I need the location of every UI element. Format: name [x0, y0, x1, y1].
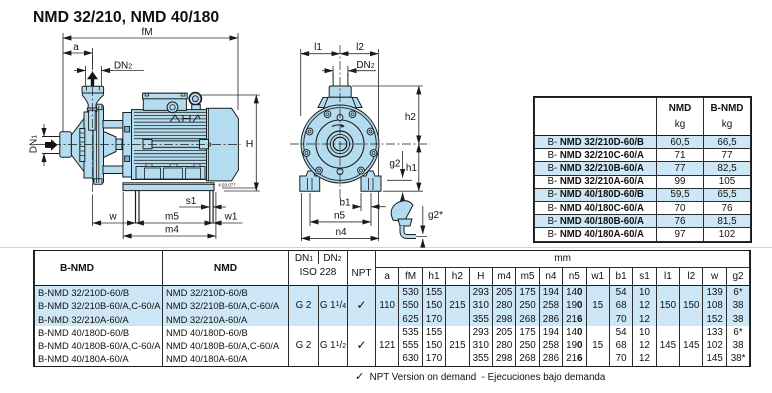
svg-text:DN2: DN2 [114, 61, 132, 72]
svg-text:n5: n5 [334, 211, 346, 222]
svg-text:g2*: g2* [428, 210, 443, 221]
svg-text:4.93.077: 4.93.077 [218, 183, 236, 188]
svg-text:n4: n4 [335, 227, 347, 238]
svg-text:w1: w1 [224, 212, 238, 223]
svg-text:h2: h2 [405, 112, 417, 123]
svg-text:DN1: DN1 [29, 135, 40, 153]
svg-text:fM: fM [141, 27, 152, 38]
svg-text:DN2: DN2 [356, 60, 374, 71]
svg-text:g2: g2 [389, 159, 401, 170]
svg-text:s1: s1 [186, 196, 197, 207]
svg-text:m5: m5 [165, 212, 179, 223]
svg-text:l1: l1 [314, 42, 322, 53]
svg-text:l2: l2 [356, 42, 364, 53]
svg-text:b1: b1 [339, 198, 351, 209]
svg-text:h1: h1 [406, 163, 418, 174]
svg-text:a: a [73, 42, 79, 53]
svg-text:H: H [246, 138, 254, 150]
svg-text:w: w [108, 212, 117, 223]
svg-text:m4: m4 [165, 225, 179, 236]
